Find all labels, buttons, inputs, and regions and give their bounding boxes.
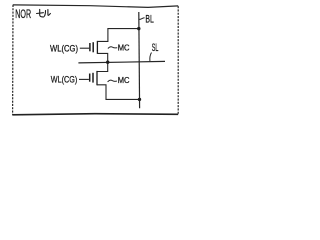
wire: BL label leader [139,18,144,20]
svg-text:MC: MC [118,76,130,85]
wire: upper drain lead to BL [97,29,139,42]
wire: MC upper label leader squiggle [108,47,117,49]
transistor MC upper : word line lead [80,47,89,49]
svg-text:SL: SL [152,42,159,54]
transistor MC upper : floating gate bar [92,42,94,52]
svg-text:WL(CG): WL(CG) [51,74,78,84]
wire: lower drain lead to BL [97,85,140,100]
wire: lower source lead up [97,62,108,71]
transistor MC lower : control gate bar [89,74,91,82]
transistor MC upper : channel bar [96,41,98,54]
label "セル" (katakana, drawn as paths) [37,9,51,17]
node: junction dot SL [106,61,109,64]
wire: upper source lead down [97,53,107,62]
wire: SL label leader [150,53,152,62]
svg-text:NOR: NOR [15,9,31,21]
frame bottom border [12,114,178,115]
transistor MC lower : floating gate bar [92,73,94,83]
svg-text:MC: MC [118,43,130,52]
node: junction dot BL upper [137,27,140,30]
transistor MC lower : word line lead [79,78,89,80]
wire: bit line vertical [138,12,141,108]
frame top border [13,5,178,8]
svg-text:BL: BL [145,14,153,26]
frame right border [177,6,179,114]
svg-text:WL(CG): WL(CG) [50,44,78,54]
transistor MC upper : control gate bar [89,43,91,51]
node: junction dot BL lower [138,98,141,101]
wire: source line horizontal SL [78,61,165,63]
wire: MC lower label leader squiggle [108,80,117,82]
transistor MC lower : channel bar [96,71,98,85]
frame left border [12,5,14,115]
